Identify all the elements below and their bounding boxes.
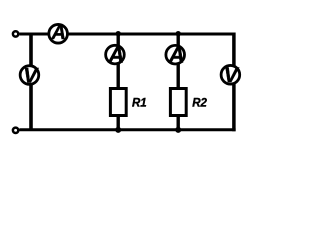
wire left voltmeter branch bbox=[29, 34, 33, 130]
svg-text:R1: R1 bbox=[132, 97, 147, 109]
wire branch R1 bbox=[116, 34, 119, 130]
voltmeter V1 (left) bbox=[20, 65, 39, 88]
junction top of R2 branch bbox=[176, 31, 181, 36]
wire branch R2 bbox=[176, 34, 179, 130]
terminal top left bbox=[13, 31, 18, 36]
wire right vertical bbox=[232, 33, 236, 132]
junction top of R1 branch bbox=[116, 31, 121, 36]
ammeter A3 (branch R2) bbox=[166, 42, 185, 67]
svg-text:R2: R2 bbox=[192, 97, 207, 109]
junction bottom of R2 branch bbox=[175, 127, 181, 133]
resistor R1 bbox=[110, 89, 126, 116]
resistor R2 bbox=[170, 89, 186, 116]
svg-text:A: A bbox=[107, 42, 124, 67]
svg-text:A: A bbox=[51, 22, 66, 44]
junction bottom of R1 branch bbox=[115, 127, 121, 133]
svg-text:A: A bbox=[168, 42, 185, 67]
wire bottom bus bbox=[19, 128, 235, 131]
terminal bottom left bbox=[13, 128, 18, 133]
voltmeter V2 (right) bbox=[221, 64, 240, 87]
wire top bus bbox=[19, 33, 235, 36]
ammeter A2 (branch R1) bbox=[106, 42, 125, 67]
svg-text:V: V bbox=[224, 64, 240, 87]
svg-text:V: V bbox=[23, 65, 39, 88]
ammeter A1 (top) bbox=[49, 22, 68, 44]
